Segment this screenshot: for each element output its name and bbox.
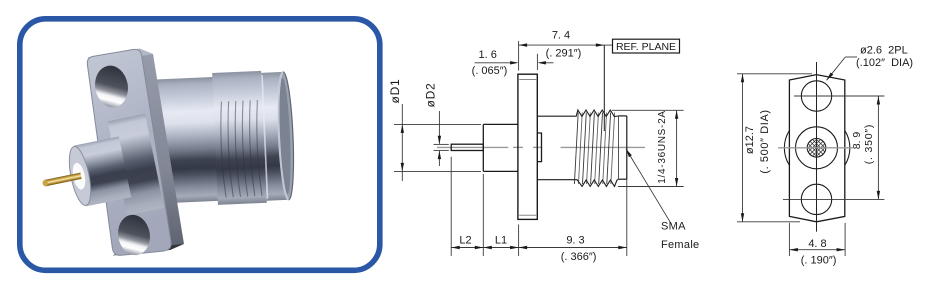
svg-text:1. 6: 1. 6 bbox=[479, 49, 497, 61]
svg-text:(. 500″ DIA): (. 500″ DIA) bbox=[759, 109, 771, 173]
svg-text:(. 065″): (. 065″) bbox=[472, 65, 508, 77]
svg-text:(. 366″): (. 366″) bbox=[561, 251, 597, 263]
svg-text:8. 9: 8. 9 bbox=[851, 132, 863, 150]
svg-text:9. 3: 9. 3 bbox=[566, 235, 584, 247]
svg-text:7. 4: 7. 4 bbox=[552, 30, 570, 42]
svg-text:(.102″ DIA): (.102″ DIA) bbox=[856, 57, 913, 69]
svg-text:øD2: øD2 bbox=[424, 82, 438, 107]
svg-text:ø12.7: ø12.7 bbox=[744, 126, 756, 154]
svg-text:(. 190″): (. 190″) bbox=[801, 255, 837, 267]
svg-text:ø2.6 2PL: ø2.6 2PL bbox=[860, 45, 908, 57]
svg-text:øD1: øD1 bbox=[388, 78, 402, 103]
svg-text:(. 350″): (. 350″) bbox=[863, 124, 875, 164]
svg-text:SMA: SMA bbox=[661, 221, 686, 233]
svg-text:1/4-36UNS-2A: 1/4-36UNS-2A bbox=[657, 110, 668, 183]
svg-text:4. 8: 4. 8 bbox=[808, 238, 826, 250]
svg-text:(. 291″): (. 291″) bbox=[546, 48, 582, 60]
svg-text:L2: L2 bbox=[459, 235, 471, 247]
svg-text:L1: L1 bbox=[495, 235, 507, 247]
svg-text:REF. PLANE: REF. PLANE bbox=[616, 41, 676, 53]
svg-text:Female: Female bbox=[661, 239, 699, 251]
